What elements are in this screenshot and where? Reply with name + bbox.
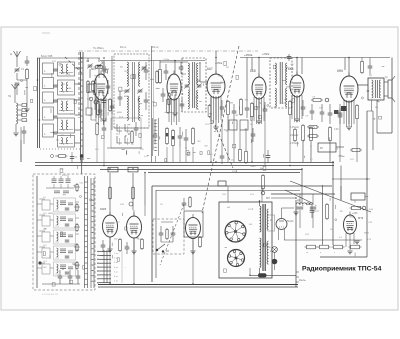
svg-text:6А7: 6А7 [207, 67, 213, 71]
svg-text:+: + [315, 203, 317, 207]
svg-text:6Ж8: 6Ж8 [100, 207, 106, 211]
svg-text:A: A [10, 52, 12, 56]
svg-text:30к: 30к [245, 100, 248, 102]
svg-text:1М: 1М [122, 90, 125, 92]
svg-text:1 ат: 1 ат [114, 253, 118, 255]
svg-text:30к: 30к [260, 168, 263, 170]
svg-text:51к: 51к [56, 139, 59, 141]
svg-text:6Б8: 6Б8 [250, 69, 256, 73]
svg-text:6800: 6800 [364, 232, 370, 234]
svg-text:МП: МП [266, 196, 270, 200]
svg-text:240мкф: 240мкф [290, 134, 298, 137]
svg-text:Фпч-2: Фпч-2 [152, 46, 159, 49]
svg-text:ч: ч [334, 252, 335, 254]
svg-text:5М: 5М [152, 101, 155, 103]
svg-text:6 ат: 6 ат [114, 276, 118, 278]
svg-text:30к: 30к [120, 66, 123, 68]
svg-text:→: → [124, 266, 126, 269]
svg-text:+250в: +250в [163, 59, 170, 61]
svg-text:6800: 6800 [251, 166, 257, 168]
svg-text:Радиоприемник ТПС-54: Радиоприемник ТПС-54 [302, 266, 382, 273]
svg-text:6П3: 6П3 [358, 216, 364, 220]
svg-text:10,0: 10,0 [314, 211, 319, 213]
svg-text:30к: 30к [114, 238, 117, 240]
svg-text:0,05мкф: 0,05мкф [290, 142, 299, 145]
svg-text:30к: 30к [225, 131, 228, 133]
svg-text:Блок УКВ: Блок УКВ [41, 54, 53, 58]
svg-text:7 ат: 7 ат [114, 281, 118, 283]
svg-text:6К3: 6К3 [288, 67, 294, 71]
svg-text:Сеть: Сеть [299, 278, 306, 282]
svg-text:4 ат: 4 ат [114, 267, 118, 269]
svg-text:5М: 5М [220, 82, 223, 84]
svg-text:51к: 51к [79, 183, 82, 185]
svg-text:+: + [302, 203, 304, 207]
svg-text:6Ф6: 6Ф6 [337, 69, 343, 73]
svg-text:5Ц4С: 5Ц4С [287, 219, 294, 223]
svg-text:Пч 465кгц: Пч 465кгц [93, 47, 105, 50]
svg-text:5 ат: 5 ат [114, 271, 118, 273]
svg-text:В 4-19: В 4-19 [62, 175, 69, 177]
svg-text:6800: 6800 [117, 112, 123, 114]
svg-text:Фпч-1: Фпч-1 [120, 46, 127, 49]
svg-text:3 ат: 3 ат [114, 262, 118, 264]
svg-text:6800: 6800 [218, 76, 224, 78]
svg-text:1М: 1М [204, 146, 207, 148]
svg-text:6800: 6800 [124, 96, 130, 98]
svg-text:+250: +250 [352, 212, 358, 215]
svg-text:+250в: +250в [244, 53, 253, 57]
svg-text:0,05: 0,05 [334, 129, 339, 131]
svg-text:0,05мкф: 0,05мкф [290, 126, 299, 129]
svg-text:+250в: +250в [262, 52, 270, 56]
svg-text:30к: 30к [101, 93, 104, 95]
svg-text:6800: 6800 [48, 213, 54, 215]
svg-text:к 1 2 3 4 5 6 7 8: к 1 2 3 4 5 6 7 8 [42, 294, 58, 296]
